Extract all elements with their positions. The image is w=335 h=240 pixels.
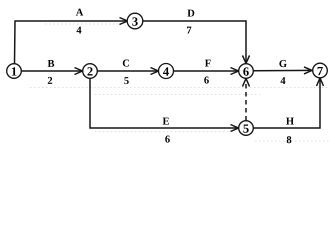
arrowhead into node 6 bottom (243, 79, 250, 87)
wire D-path from node 3 right and down to node 6 (143, 21, 246, 63)
svg-text:E: E (162, 116, 169, 127)
wire C from node 2 to node 4 (97, 70, 158, 72)
svg-text:4: 4 (76, 25, 82, 36)
svg-text:7: 7 (186, 26, 191, 37)
node 5 (239, 121, 254, 136)
svg-text:C: C (122, 58, 130, 69)
svg-text:4: 4 (280, 76, 286, 87)
faint scan artifact dotted lines (30, 24, 330, 141)
svg-text:4: 4 (163, 65, 170, 79)
svg-text:6: 6 (165, 134, 170, 145)
wire E-path from node 2 down and right to node 5 (90, 78, 239, 128)
arrowhead into node 6 top (243, 55, 250, 63)
svg-text:6: 6 (204, 76, 209, 87)
svg-text:F: F (205, 59, 211, 70)
wire F from node 4 to node 6 (174, 70, 239, 72)
svg-text:G: G (279, 59, 287, 70)
arrowhead into node 4 (151, 68, 159, 75)
node 1 (7, 64, 22, 79)
arrowhead into node 7 (304, 67, 312, 74)
svg-text:B: B (47, 59, 54, 70)
svg-text:A: A (76, 7, 84, 18)
svg-text:5: 5 (243, 122, 249, 136)
node 7 (313, 63, 328, 78)
wire A-path from node 1 up and right to node 3 (15, 21, 128, 64)
arrowhead into node 2 (75, 68, 83, 75)
dashed dummy arrow from node 5 up to node 6 (245, 80, 247, 121)
svg-text:7: 7 (317, 64, 323, 78)
node 4 (159, 64, 174, 79)
arrowhead into node 5 (231, 125, 239, 132)
arrowhead into node 3 (120, 18, 128, 25)
wire H-path from node 5 right and up to node 7 (253, 78, 320, 128)
arrowhead into node 6 (231, 68, 239, 75)
wire G from node 6 to node 7 (254, 69, 313, 71)
svg-text:2: 2 (87, 65, 93, 79)
svg-text:2: 2 (47, 76, 52, 87)
wire B from node 1 to node 2 (21, 70, 82, 72)
svg-text:3: 3 (132, 15, 138, 29)
svg-text:H: H (286, 117, 294, 128)
arrowhead into node 7 bottom (317, 78, 324, 86)
svg-text:D: D (187, 9, 195, 20)
svg-text:8: 8 (286, 135, 291, 146)
svg-text:1: 1 (11, 65, 17, 79)
svg-text:6: 6 (243, 65, 249, 79)
svg-text:5: 5 (124, 76, 129, 87)
node 6 (239, 64, 254, 79)
node 3 (127, 13, 143, 29)
node 2 (83, 64, 98, 79)
